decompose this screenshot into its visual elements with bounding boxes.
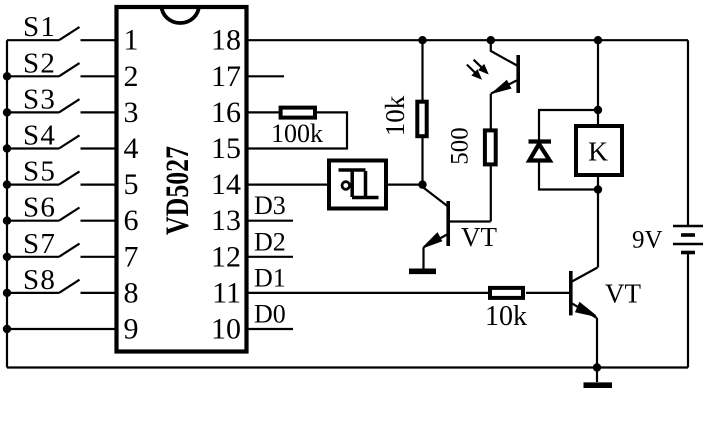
- svg-text:3: 3: [124, 96, 139, 129]
- phototransistor emitter arrow: [493, 81, 510, 93]
- svg-text:16: 16: [211, 96, 241, 129]
- pin 13 stub wire: [249, 220, 294, 222]
- node dot diode bottom: [594, 185, 602, 193]
- diode VD triangle: [529, 144, 549, 161]
- node A dot: [418, 180, 426, 188]
- light arrow 1: [474, 60, 482, 68]
- pin 16 wire to resistor: [249, 111, 280, 113]
- phototransistor emitter wire: [491, 81, 516, 94]
- svg-text:7: 7: [124, 240, 139, 273]
- resistor 10k vertical: [417, 102, 426, 137]
- pin 17 stub wire: [249, 75, 285, 77]
- svg-text:VT: VT: [605, 279, 641, 309]
- svg-text:10k: 10k: [485, 301, 527, 332]
- transistor VT1 emitter wire: [424, 234, 449, 247]
- right bus wire lower (battery -): [687, 253, 689, 368]
- svg-text:D0: D0: [254, 300, 286, 329]
- transistor VT2 base bar: [569, 271, 573, 315]
- right bus wire upper (battery +): [687, 40, 689, 226]
- resistor 100k: [281, 108, 315, 118]
- bottom bus wire: [7, 366, 688, 368]
- svg-text:8: 8: [124, 276, 139, 309]
- wire top bus to resistor 10k: [421, 40, 423, 101]
- pin 9 wire: [7, 328, 117, 330]
- battery GB plate long 2: [673, 243, 703, 246]
- svg-text:2: 2: [124, 60, 139, 93]
- node dot pin4 bus: [3, 144, 11, 152]
- switch S7: [7, 244, 117, 257]
- transistor VT1 collector wire: [423, 188, 448, 207]
- switch S4: [7, 135, 117, 148]
- light arrow 2 head: [472, 70, 481, 79]
- switch S6: [7, 208, 117, 221]
- svg-text:13: 13: [211, 204, 241, 237]
- transistor VT2 emitter arrow: [576, 303, 595, 316]
- svg-text:15: 15: [211, 132, 241, 165]
- ground bottom stub: [596, 368, 598, 383]
- top bus wire pin18: [249, 39, 689, 41]
- wire resistor to pin 15 loop: [249, 112, 348, 148]
- diode VD cathode bar: [529, 139, 552, 143]
- wire top bus to relay: [597, 40, 599, 126]
- wire relay to VT2 collector: [597, 175, 599, 268]
- svg-text:18: 18: [211, 24, 241, 57]
- IC U1 VD5027 body: [117, 7, 247, 352]
- phototransistor collector wire: [491, 40, 517, 65]
- svg-text:9V: 9V: [632, 227, 663, 254]
- pin 12 stub wire: [249, 256, 294, 258]
- pin 11 wire D1 to resistor 10k-2: [249, 292, 489, 294]
- node dot diode top: [594, 106, 602, 114]
- node dot pin8 bus: [3, 289, 11, 297]
- node dot pin2 bus: [3, 72, 11, 80]
- svg-text:S3: S3: [23, 83, 56, 115]
- node dot pin6 bus: [3, 217, 11, 225]
- svg-text:S1: S1: [23, 11, 56, 43]
- switch S5: [7, 171, 117, 184]
- sound emitter symbol: [339, 170, 379, 198]
- svg-text:D2: D2: [254, 227, 286, 256]
- svg-text:S5: S5: [23, 156, 56, 188]
- wire VT2 emitter to bottom bus: [596, 318, 598, 368]
- svg-text:11: 11: [212, 276, 241, 309]
- switch S3: [7, 99, 117, 112]
- transistor VT1 emitter lead: [422, 247, 424, 269]
- diode branch top wire: [539, 110, 598, 141]
- svg-text:9: 9: [124, 313, 139, 346]
- svg-text:S8: S8: [23, 264, 56, 296]
- svg-text:VT: VT: [461, 222, 497, 252]
- sound emitter symbol circle: [342, 182, 350, 190]
- wire phototransistor emitter to resistor 500: [490, 94, 492, 131]
- svg-text:K: K: [588, 136, 608, 167]
- svg-text:S6: S6: [23, 192, 56, 224]
- pin 14 wire to sound box: [249, 184, 330, 186]
- wire sound box to node: [386, 184, 424, 186]
- transistor VT2 collector wire: [572, 268, 598, 282]
- node dot relay top bus: [594, 36, 602, 44]
- relay K box: [576, 126, 622, 175]
- node dot pin3 bus: [3, 108, 11, 116]
- svg-text:10k: 10k: [380, 95, 410, 136]
- svg-text:1: 1: [124, 24, 139, 57]
- svg-text:S4: S4: [23, 120, 56, 152]
- transistor VT1 base wire: [450, 220, 491, 222]
- node dot pin7 bus: [3, 253, 11, 261]
- svg-text:D1: D1: [254, 263, 286, 292]
- ground VT1: [409, 268, 436, 274]
- battery GB plate short 1: [681, 233, 695, 237]
- svg-text:100k: 100k: [271, 119, 323, 148]
- pin 10 stub wire: [249, 328, 294, 330]
- node dot 10k top: [418, 36, 426, 44]
- battery GB plate short 2: [681, 251, 695, 255]
- transistor VT2 emitter wire: [572, 303, 598, 318]
- svg-text:S7: S7: [23, 228, 56, 260]
- node dot pin9 bus: [3, 325, 11, 333]
- svg-text:4: 4: [124, 132, 139, 165]
- switch S2: [7, 63, 117, 76]
- node dot phototransistor: [487, 36, 495, 44]
- svg-text:17: 17: [211, 60, 241, 93]
- battery GB plate long top: [673, 225, 703, 228]
- svg-text:D3: D3: [254, 191, 286, 220]
- svg-text:10: 10: [211, 313, 241, 346]
- wire resistor 500 to VT1 base: [490, 164, 492, 221]
- light arrow 2: [467, 65, 475, 73]
- transistor VT1 base bar: [446, 201, 450, 246]
- diode branch bottom wire: [539, 160, 598, 190]
- ground bottom bar: [584, 382, 613, 388]
- svg-text:12: 12: [211, 240, 241, 273]
- left bus wire: [6, 40, 8, 367]
- transistor VT1 emitter arrow: [424, 234, 441, 248]
- svg-text:5: 5: [124, 168, 139, 201]
- transistor VT2 base wire: [526, 292, 570, 294]
- svg-text:S2: S2: [23, 47, 56, 79]
- light arrow 1 head: [479, 65, 488, 74]
- switch S8: [7, 280, 117, 293]
- svg-text:6: 6: [124, 204, 139, 237]
- IC U1 notch: [162, 6, 199, 24]
- switch S1: [7, 27, 117, 40]
- resistor 500: [485, 130, 496, 164]
- svg-text:VD5027: VD5027: [160, 146, 196, 235]
- svg-text:14: 14: [211, 168, 241, 201]
- svg-text:500: 500: [447, 127, 474, 165]
- phototransistor base bar: [516, 55, 520, 93]
- resistor 10k-2: [490, 288, 523, 298]
- sound emitter box: [329, 161, 386, 209]
- node dot pin5 bus: [3, 180, 11, 188]
- wire resistor 10k to node A: [421, 137, 423, 185]
- node dot VT2 emitter bottom: [593, 363, 601, 371]
